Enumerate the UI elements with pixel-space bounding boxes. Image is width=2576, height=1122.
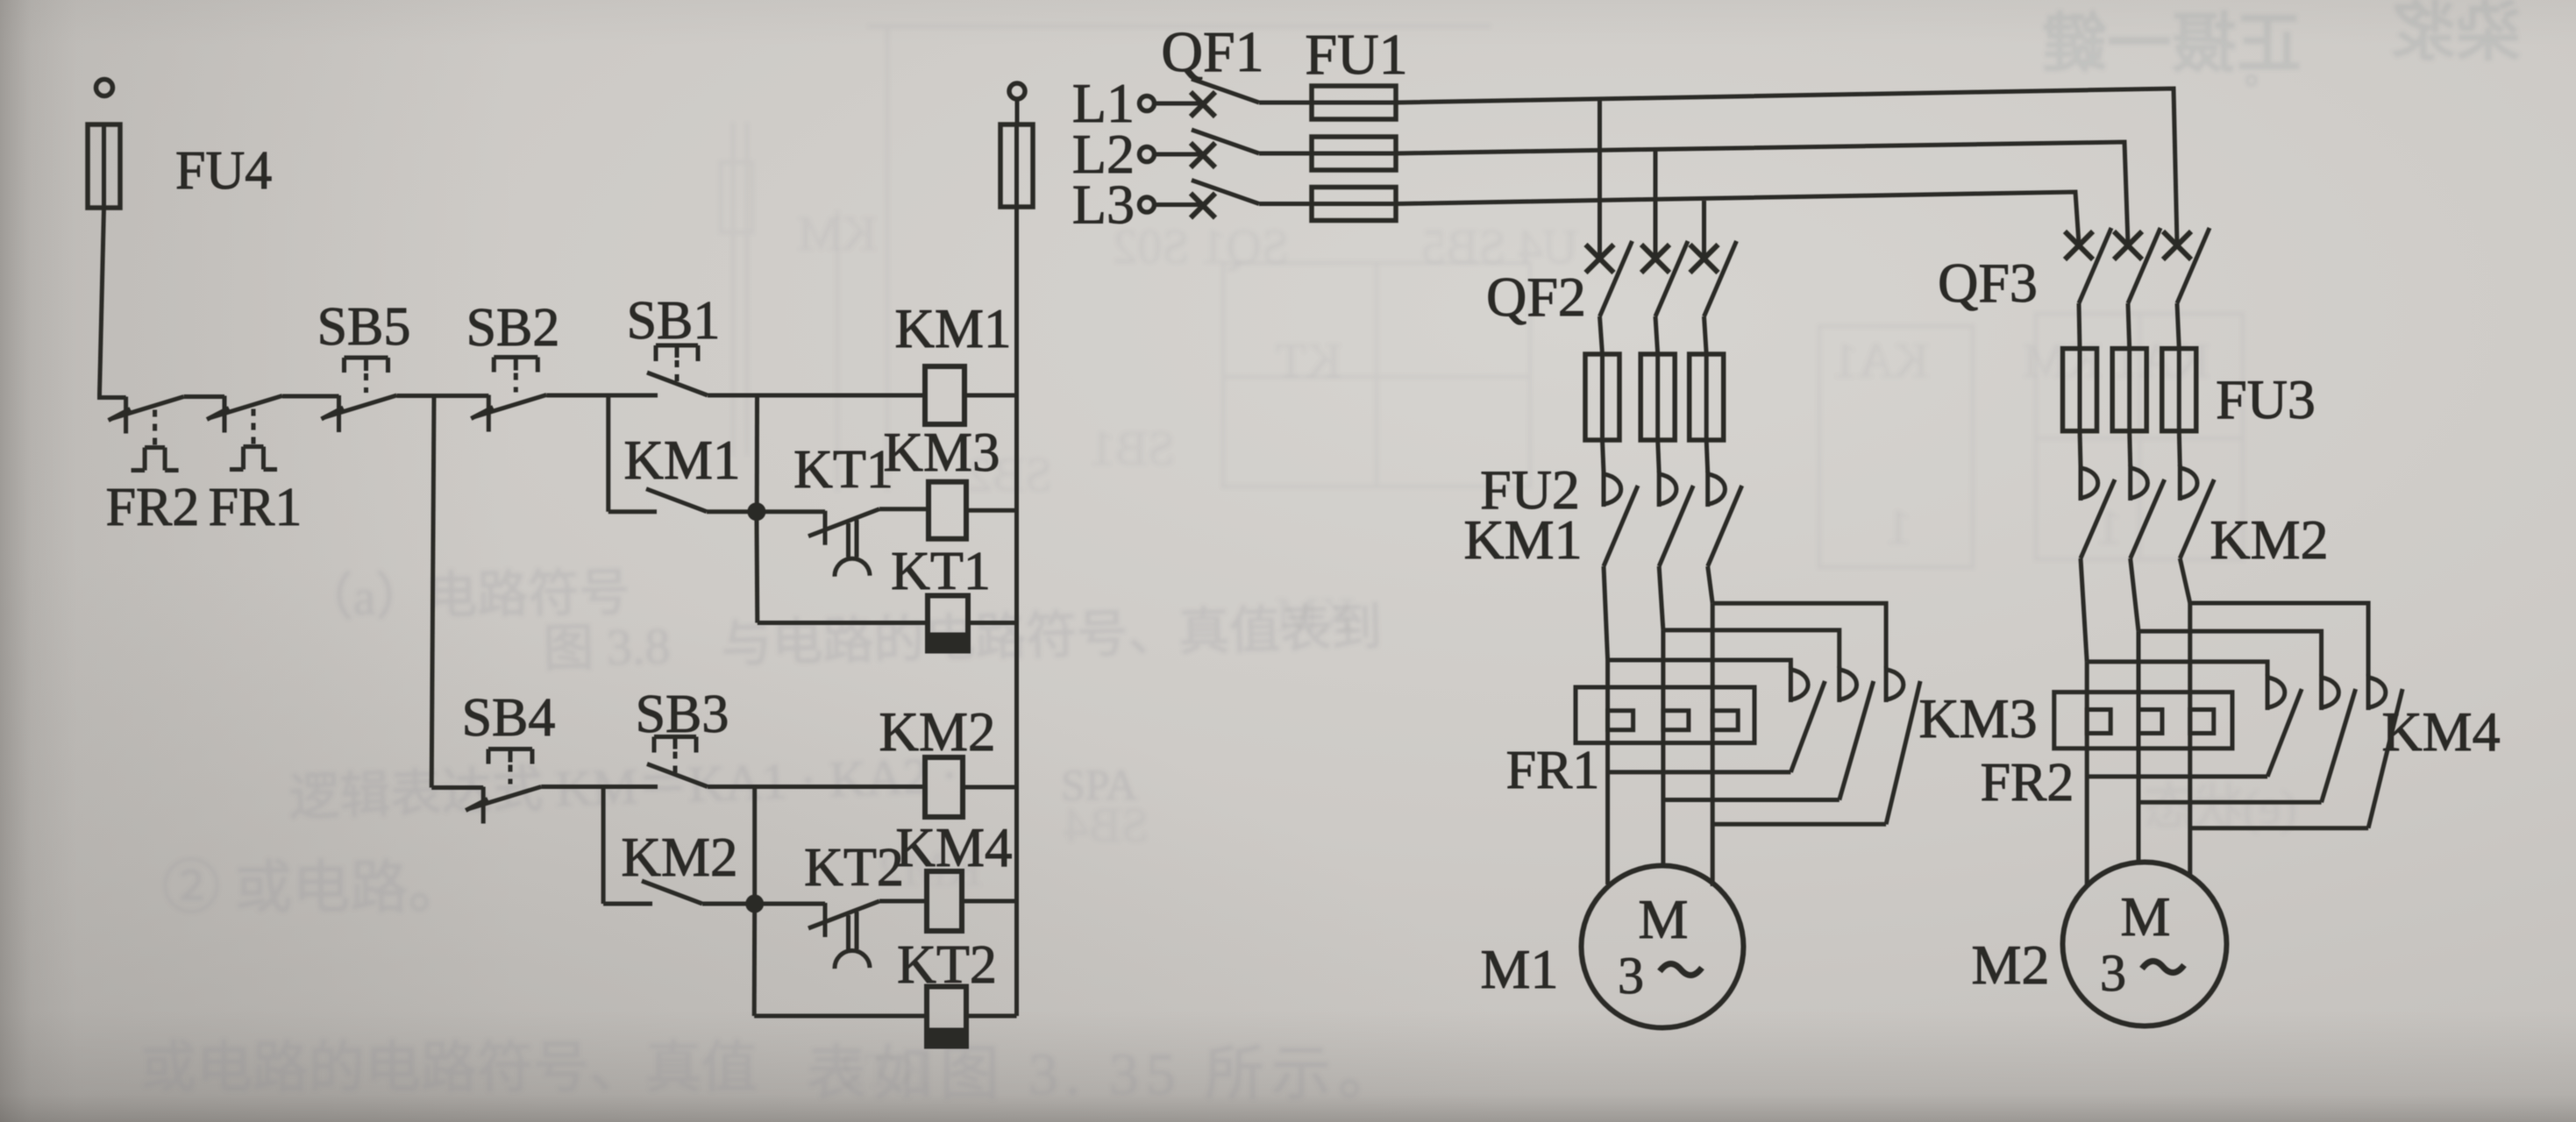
wire QF2-FU2 1 [1600,316,1603,354]
contact KM2 auxiliary (NO) [621,827,737,904]
svg-text:SB2: SB2 [466,298,560,358]
wire phase3 through FR1 [1711,603,1715,886]
wire KM4coil-bus [962,899,1017,904]
wire QF2-FU2 2 [1655,316,1658,354]
wire FU4 to row1 [100,208,126,398]
wire KM1aux-node [707,509,757,514]
label FU1 [1305,23,1407,87]
svg-text:QF2: QF2 [1486,266,1586,328]
breaker QF2 pole 1 [1586,241,1633,316]
svg-text:KM4: KM4 [895,817,1012,878]
wire KT2 coil rail [754,1014,927,1019]
wire KM2-FR2 col 2 [2131,558,2138,631]
svg-text:或电路的电路符号、真值: 或电路的电路符号、真值 [140,1037,758,1099]
wire SB4-SB3 [541,785,658,789]
fuse FU1 L3 [1312,188,1396,221]
wire KM3 feed 3 [1712,603,1886,668]
svg-text:KM3: KM3 [1918,687,2037,749]
wire row1-row2 dropper [431,396,483,788]
svg-text:FR1: FR1 [1506,741,1600,800]
fuse FU2 pole 3 [1690,354,1724,440]
contactor KM4 pole 3 [2368,674,2402,828]
wire right bus [1014,207,1019,1016]
wire branch to KM2 aux [603,787,652,905]
wire branch to KM1 aux [608,395,657,512]
heater FR1 element 3 [1712,711,1738,730]
wire KM3coil-bus [966,508,1017,513]
pushbutton SB2 (NC) [466,298,560,432]
wire KT1-KM3coil [879,507,929,511]
svg-text:M1: M1 [1481,938,1559,1000]
svg-text:KM1: KM1 [623,430,740,491]
label QF2 [1486,266,1586,328]
timer contact KT2 (NC delayed) [804,838,904,969]
wire KM3 feed 2 [1663,630,1839,668]
breaker QF2 pole 2 [1641,241,1688,316]
svg-text:FU3: FU3 [2216,368,2316,430]
fuse FU4 [88,124,272,208]
svg-text:KM: KM [798,207,877,261]
svg-text:FR2: FR2 [106,478,200,537]
wire SB3-KM2coil [708,785,925,789]
wire KM1-FR1 col 3 [1708,566,1713,603]
fuse FU1 L2 [1312,137,1396,170]
wire QF3-FU3 2 [2128,303,2130,349]
wire node-KT1 contact [757,509,825,514]
coil KT1 (timer) [891,542,991,651]
contactor KM3 pole 3 [1886,666,1920,824]
wire SB2-SB1 [546,394,658,398]
wire FU3-KM2 3 [2179,431,2180,466]
wire phase1 through FR1 [1605,660,1610,884]
svg-text:SB1: SB1 [627,291,721,351]
wire KT1 coil rail [758,621,928,625]
thermal contact FR1 [207,396,302,538]
svg-text:3: 3 [1618,947,1644,1005]
svg-text:。: 。 [2245,52,2280,91]
thermal relay FR2 box [2054,692,2232,749]
wire KM1-FR1 col 2 [1659,566,1663,630]
svg-text:M: M [2121,885,2171,948]
coil KM1 [894,298,1011,424]
pushbutton SB3 (NO) [636,685,729,787]
svg-text:KM2: KM2 [2210,508,2328,571]
svg-text:KT2: KT2 [897,935,997,995]
terminal FU4 top [96,80,113,96]
wire SB3right down [752,787,757,905]
thermal contact FR2 [106,397,200,538]
wire KM4 return 3 [2190,826,2368,830]
heater FR2 element 1 [2087,710,2110,734]
breaker QF2 pole 3 [1690,241,1737,316]
breaker QF1 pole L1 [1155,79,1313,117]
wire FR1-SB5 [282,394,339,399]
svg-text:SB5: SB5 [317,297,411,357]
contactor KM1 pole 2 [1659,471,1693,566]
svg-text:SQ1 S02: SQ1 S02 [1113,220,1289,274]
thermal relay FR1 box [1576,687,1754,743]
svg-text:（a）电路符号: （a）电路符号 [302,564,630,627]
wire SB5-node [397,394,435,398]
svg-text:FU1: FU1 [1305,23,1407,87]
svg-text:1: 1 [1887,501,1911,555]
breaker QF1 pole L3 [1155,181,1313,218]
label FU3 [2216,368,2316,430]
svg-text:KT1: KT1 [793,440,893,500]
contactor KM2 pole 2 [2131,465,2165,558]
wire KM4 feed 3 [2190,603,2368,676]
wire tap to QF2 pole 3 [1702,201,1706,257]
contactor KM2 pole 3 [2180,465,2214,558]
svg-text:SB1: SB1 [1091,422,1176,476]
wire FR2-FR1 [184,394,224,399]
timer contact KT1 (NC delayed) [793,440,893,577]
wire FU3-KM2 1 [2080,431,2081,466]
svg-text:M2: M2 [1972,934,2050,996]
heater FR1 element 1 [1608,711,1633,730]
pushbutton SB1 (NO) [627,291,721,395]
svg-text:3: 3 [2100,944,2126,1002]
breaker QF3 pole 3 [2163,228,2210,303]
label FR1 [1506,741,1600,800]
svg-text:QF3: QF3 [1938,252,2038,314]
wire FU2-KM1 1 [1603,440,1605,472]
wire L3 bus [1396,192,2079,244]
fuse FU3 pole 3 [2162,349,2196,431]
wire phase2 through FR2 [2137,631,2141,863]
wire SB1right down [755,395,759,512]
svg-text:KT: KT [1276,334,1341,388]
fuse control (unlabelled) [1000,124,1033,207]
svg-text:KM2: KM2 [621,827,737,888]
svg-text:SB3: SB3 [636,685,729,744]
contactor KM4 pole 2 [2322,674,2356,802]
svg-text:FR1: FR1 [209,478,302,537]
fuse FU3 pole 2 [2112,349,2146,431]
contactor KM4 pole 1 [2267,674,2302,777]
pushbutton SB4 (NC) [462,688,556,824]
svg-text:FU4: FU4 [175,141,272,201]
label M1 [1481,938,1559,1000]
wire phase1 through FR2 [2085,662,2089,885]
label FR2 [1981,753,2074,813]
svg-text:KM1: KM1 [894,298,1011,359]
fuse FU3 pole 1 [2063,349,2097,431]
wire L1 bus [1396,89,2177,244]
wire phase2 through FR1 [1661,630,1665,867]
terminal L2 [1072,123,1155,185]
coil KT2 (timer) [897,935,997,1047]
wire KM3 return 3 [1712,822,1886,827]
svg-text:KM1: KM1 [1463,508,1582,571]
contactor KM1 pole 3 [1708,471,1742,566]
pushbutton SB5 (NC) [317,297,411,432]
wire KM4 return 1 [2087,774,2267,778]
heater FR1 element 2 [1663,711,1689,730]
wire KM2-FR2 col 3 [2180,558,2190,603]
wire FU3-KM2 2 [2130,431,2131,466]
coil KM4 [895,817,1012,931]
node A junction [747,502,765,521]
motor M2 [2063,863,2227,1026]
svg-text:SPA: SPA [1061,760,1137,809]
contactor KM1 pole 1 [1604,471,1638,566]
node row1 branch [434,394,488,398]
label QF3 [1938,252,2038,314]
wire QF2-FU2 3 [1704,316,1707,354]
breaker QF1 pole L2 [1155,130,1313,167]
fuse FU2 pole 1 [1585,354,1619,440]
wire FU2-KM1 2 [1658,440,1660,472]
svg-text:L3: L3 [1072,174,1135,236]
fuse FU1 L1 [1312,86,1396,119]
wire KT1coil-bus [968,621,1017,625]
label KM2 main [2210,508,2328,571]
wire phase3 through FR2 [2188,603,2192,876]
svg-text:KT2: KT2 [804,838,904,898]
wire KM4 feed 2 [2138,631,2322,676]
svg-text:M: M [1639,888,1689,950]
wire tap to QF2 pole 1 [1598,99,1602,257]
svg-text:KM2: KM2 [879,701,995,763]
wire KM3 return 2 [1663,798,1839,802]
motor M1 [1582,866,1744,1028]
heater FR2 element 2 [2138,710,2162,734]
wire terminal-fuse [1015,99,1020,124]
svg-text:KA1 KM: KA1 KM [2023,334,2210,388]
wire L2 bus [1396,142,2128,244]
coil KM3 [883,422,1000,539]
wire node down to KT1 coil row [754,512,759,623]
node B junction [745,895,764,913]
wire FU2-KM1 3 [1706,440,1708,472]
svg-text:SB4: SB4 [462,688,556,748]
heater FR2 element 3 [2190,710,2214,734]
wire KM1coil-bus [964,394,1017,398]
terminal L3 [1072,174,1155,236]
label KM3 contacts [1918,687,2037,749]
label KM1 main [1463,508,1582,571]
wire tap to QF2 pole 2 [1654,151,1658,257]
svg-text:KM3: KM3 [883,422,1000,483]
svg-text:② 或电路。: ② 或电路。 [162,856,466,920]
contactor KM3 pole 1 [1790,666,1825,772]
wire KM2-FR2 col 1 [2081,558,2087,662]
wire KM3 feed 1 [1608,660,1791,668]
wire node-KT2 contact [755,902,825,906]
contactor KM2 pole 1 [2081,465,2115,558]
contact KM1 auxiliary (NO) [623,430,740,512]
svg-text:QF1: QF1 [1161,20,1263,84]
wire node down to KT2 coil row [752,904,758,1016]
svg-text:KT1: KT1 [891,542,991,601]
wire KT2coil-bus [966,1014,1017,1019]
label FU2 [1480,458,1580,521]
wire KT2-KM4coil [879,899,927,904]
fuse FU2 pole 2 [1640,354,1675,440]
svg-text:表如图 3. 35 所示。: 表如图 3. 35 所示。 [807,1040,1405,1107]
wire QF3-FU3 3 [2177,303,2179,349]
wire KM3 return 1 [1608,770,1791,774]
wire SB1-KM1coil [708,394,925,398]
coil KM2 [879,701,995,817]
label KM4 contacts [2381,700,2500,763]
wire KM1-FR1 col 1 [1604,566,1608,660]
terminal L1 [1072,72,1155,134]
svg-text:染浆: 染浆 [2391,0,2521,69]
wire KM4 feed 1 [2087,662,2267,676]
breaker QF3 pole 1 [2065,228,2111,303]
terminal control bus top [1009,83,1025,99]
label M2 [1972,934,2050,996]
label QF1 [1161,20,1263,84]
wire KM2aux-node [702,902,755,906]
svg-text:FR2: FR2 [1981,753,2074,813]
contactor KM3 pole 2 [1839,666,1874,800]
breaker QF3 pole 2 [2114,228,2160,303]
svg-text:KA1: KA1 [1833,334,1929,388]
wire QF3-FU3 1 [2079,303,2080,349]
wire KM4 return 2 [2138,800,2322,805]
wire KM2coil-bus [963,785,1017,790]
